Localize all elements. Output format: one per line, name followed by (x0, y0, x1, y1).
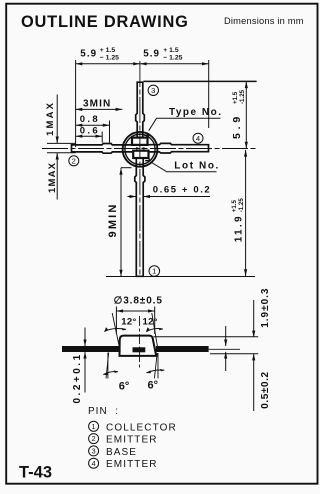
svg-text:5.9: 5.9 (80, 48, 97, 59)
svg-text:+ 1.5: + 1.5 (100, 47, 116, 54)
svg-text:0.5±0.2: 0.5±0.2 (260, 371, 271, 409)
svg-text:0.2+0.1: 0.2+0.1 (72, 352, 83, 403)
svg-text:1MAX: 1MAX (47, 162, 58, 193)
svg-text:6°: 6° (119, 380, 130, 392)
svg-text:0.6: 0.6 (80, 126, 100, 137)
svg-text:+1.5: +1.5 (232, 91, 239, 104)
svg-text:1.9±0.3: 1.9±0.3 (260, 288, 271, 328)
svg-text:COLLECTOR: COLLECTOR (106, 422, 177, 433)
svg-text:12°: 12° (121, 316, 136, 327)
svg-text:3: 3 (92, 447, 96, 456)
svg-text:2: 2 (92, 434, 96, 443)
svg-text:2: 2 (72, 157, 76, 166)
svg-text:4: 4 (92, 459, 96, 468)
svg-text:11.9: 11.9 (233, 214, 244, 242)
svg-text:3MIN: 3MIN (83, 99, 111, 110)
svg-text:5.9: 5.9 (143, 48, 160, 59)
svg-text:+1.5: +1.5 (231, 200, 238, 213)
svg-text:BASE: BASE (106, 447, 137, 458)
svg-text:Dimensions in mm: Dimensions in mm (224, 16, 304, 26)
svg-text:3: 3 (151, 86, 155, 95)
svg-text:6°: 6° (148, 379, 159, 391)
svg-text:PIN :: PIN : (88, 406, 119, 417)
svg-text:1: 1 (92, 422, 96, 431)
svg-text:9MIN: 9MIN (107, 202, 119, 237)
svg-text:-1.25: -1.25 (239, 89, 246, 104)
svg-text:5.9: 5.9 (231, 113, 243, 139)
svg-text:− 1.25: − 1.25 (100, 54, 119, 61)
svg-text:+ 1.5: + 1.5 (163, 47, 179, 54)
svg-text:− 1.25: − 1.25 (163, 54, 182, 61)
svg-text:1MAX: 1MAX (45, 101, 56, 136)
svg-text:0.8: 0.8 (80, 114, 100, 125)
svg-text:-1.25: -1.25 (238, 198, 245, 213)
svg-text:∅3.8±0.5: ∅3.8±0.5 (114, 296, 163, 307)
svg-text:EMITTER: EMITTER (106, 435, 158, 446)
svg-text:4: 4 (196, 134, 200, 143)
svg-text:Type No.: Type No. (169, 107, 222, 118)
svg-text:EMITTER: EMITTER (106, 459, 158, 470)
svg-text:Lot No.: Lot No. (174, 160, 220, 171)
svg-text:1: 1 (152, 267, 156, 276)
svg-text:12°: 12° (143, 316, 158, 327)
svg-text:T-43: T-43 (19, 464, 52, 482)
svg-text:OUTLINE DRAWING: OUTLINE DRAWING (21, 13, 189, 31)
svg-text:0.65 + 0.2: 0.65 + 0.2 (153, 184, 212, 195)
